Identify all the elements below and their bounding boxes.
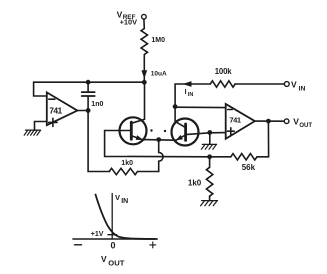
terminal VOUT — [284, 119, 289, 124]
transistor Q2 — [172, 119, 199, 146]
matched pair dots — [150, 129, 152, 131]
Q1 collector — [131, 82, 144, 123]
terminal VIN — [284, 82, 289, 87]
wire to U2 minus — [175, 106, 226, 108]
label +10V — [120, 18, 138, 27]
svg-text:+1V: +1V — [91, 231, 104, 238]
U2 minus symbol — [228, 109, 233, 111]
node U1 output — [86, 108, 91, 113]
wire VREF to R1M0 — [143, 19, 145, 28]
graph label 0 — [111, 241, 116, 251]
node cap top — [86, 80, 91, 85]
graph label +1V — [91, 231, 104, 238]
graph label VOUT — [101, 254, 125, 268]
label VIN — [291, 80, 305, 93]
svg-text:1k0: 1k0 — [188, 178, 202, 187]
wire node to 1k0 right — [209, 157, 211, 168]
arrow I_IN — [184, 82, 191, 86]
resistor 1M0 — [141, 29, 147, 55]
graph tick +1V — [108, 234, 117, 236]
Q1 emitter — [131, 136, 144, 140]
wire emitter bus — [144, 139, 176, 142]
Q1 base route down and right — [105, 131, 210, 157]
resistor 100k — [210, 81, 235, 87]
node Q2 base / U2 plus — [207, 130, 212, 135]
wire I_IN vertical — [175, 84, 210, 107]
wire 1k0 to ground C — [209, 196, 211, 200]
label 56k — [242, 163, 256, 172]
node U2 minus input — [173, 104, 178, 109]
capacitor C1 1n0 — [87, 82, 89, 110]
svg-text:1k0: 1k0 — [121, 160, 133, 167]
svg-text:OUT: OUT — [108, 258, 124, 267]
op-amp U1 741 — [47, 92, 78, 125]
svg-text:V: V — [101, 254, 107, 264]
svg-text:IN: IN — [121, 198, 128, 205]
svg-text:OUT: OUT — [299, 123, 312, 129]
node emitters — [156, 137, 161, 142]
label 100k — [215, 67, 232, 76]
label 1k0 right — [188, 178, 202, 187]
terminal VREF — [142, 14, 147, 19]
wire U1 plus input — [35, 122, 47, 131]
graph label VIN — [115, 193, 128, 205]
svg-text:V: V — [293, 117, 299, 127]
graph y-axis — [111, 194, 113, 240]
label 1k0 left — [121, 160, 133, 167]
U1 minus symbol — [49, 98, 55, 100]
ground U1 — [24, 130, 40, 135]
U1 plus symbol — [49, 118, 57, 126]
svg-text:+10V: +10V — [120, 18, 138, 27]
wire feedback down — [257, 121, 269, 157]
svg-text:I: I — [185, 89, 187, 96]
wire hop over base line — [159, 152, 163, 161]
wire 56k to node — [210, 156, 231, 158]
wire U1 output down — [88, 111, 109, 172]
wire 1M0 to node, current arrow — [143, 55, 145, 83]
resistor 56k — [231, 154, 257, 160]
graph plus sign — [150, 242, 156, 248]
Q2 emitter — [176, 135, 186, 140]
wire to ground B — [209, 133, 211, 145]
ground Q2 base — [201, 144, 216, 149]
wire top feedback — [34, 82, 145, 96]
Q2 base wire — [186, 133, 226, 135]
label 1M0 — [151, 37, 165, 44]
svg-text:V: V — [291, 80, 297, 90]
svg-text:IN: IN — [299, 85, 306, 92]
node summing junction — [142, 80, 147, 85]
svg-text:IN: IN — [188, 92, 194, 98]
label VOUT — [293, 117, 312, 129]
wire U2 output — [255, 120, 284, 122]
graph x-axis — [73, 238, 157, 240]
label 10uA — [151, 71, 167, 78]
label I_IN — [185, 89, 194, 98]
resistor 1k0 left — [109, 168, 137, 174]
label 1n0 — [91, 101, 103, 108]
graph minus sign — [74, 244, 81, 246]
node U2 output — [266, 119, 271, 124]
svg-text:1M0: 1M0 — [151, 37, 165, 44]
label VREF — [117, 9, 136, 21]
transistor Q1 — [120, 117, 147, 144]
ground 1k0 right — [201, 201, 218, 206]
wire U1 output — [77, 110, 88, 112]
U2 plus symbol — [227, 128, 234, 135]
resistor 1k0 right — [206, 167, 212, 196]
graph curve — [96, 195, 157, 240]
wire 1k0 to emitters with hop — [138, 161, 159, 171]
svg-text:56k: 56k — [242, 163, 256, 172]
Q2 collector — [175, 107, 186, 128]
svg-text:741: 741 — [49, 105, 62, 115]
svg-text:10uA: 10uA — [151, 71, 167, 78]
svg-text:100k: 100k — [215, 67, 232, 76]
svg-text:1n0: 1n0 — [91, 101, 103, 108]
svg-text:741: 741 — [229, 115, 241, 124]
node feedback junction — [207, 154, 212, 159]
wire 100k to VIN — [235, 83, 284, 85]
op-amp U2 741 — [226, 104, 255, 139]
arrow 10uA — [142, 71, 146, 77]
svg-text:0: 0 — [111, 241, 116, 251]
Q1 base wire — [105, 130, 132, 132]
